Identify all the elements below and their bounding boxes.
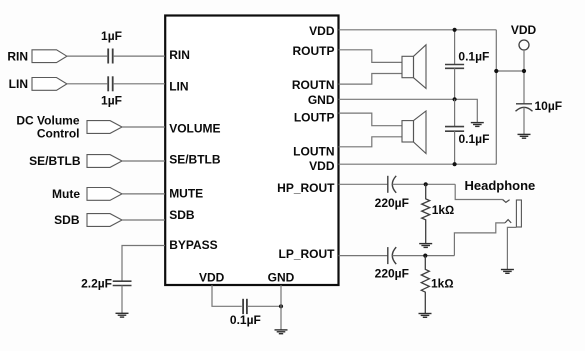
wire GND stub (280, 285, 282, 330)
svg-text:LIN: LIN (9, 77, 28, 91)
node SE/BTLB input tag (87, 155, 122, 168)
node RIN input tag (32, 50, 67, 63)
capacitor C1 1uF (108, 49, 113, 64)
wire HP to jack tip contact (455, 184, 502, 199)
capacitor C8 220uF (polarized) (388, 176, 396, 193)
svg-text:SDB: SDB (54, 213, 80, 227)
capacitor C4 0.1uF (243, 299, 247, 314)
ground (10uF) (518, 134, 531, 138)
node junction (GND stub / C4) (279, 304, 283, 308)
wire LP_ROUT to C9 (339, 255, 388, 257)
svg-text:ROUTN: ROUTN (292, 78, 335, 92)
wire RIN tag to C1 (67, 55, 107, 57)
ground (bypass cap) (116, 313, 129, 317)
wire VDD terminal down (523, 50, 525, 104)
node junction (LP node / R2) (423, 254, 427, 258)
wire LIN tag to C2 (67, 83, 107, 85)
svg-text:SE/BTLB: SE/BTLB (29, 154, 81, 168)
capacitor C6 0.1uF (GND-VDD lower) (454, 99, 456, 126)
wire C1 to RIN pin (114, 55, 165, 57)
ground (right rail) (471, 123, 484, 127)
headphone jack tip contact (503, 200, 510, 203)
svg-text:RIN: RIN (169, 48, 190, 62)
svg-text:VDD: VDD (309, 24, 335, 38)
svg-text:HP_ROUT: HP_ROUT (277, 181, 335, 195)
svg-text:1µF: 1µF (101, 29, 122, 43)
wire SDB tag to pin (122, 219, 165, 221)
wire GND rail (339, 99, 478, 122)
svg-text:10µF: 10µF (535, 99, 563, 113)
node LIN input tag (32, 78, 67, 91)
ground (R2) (419, 314, 432, 318)
wire LOUTN to speaker (339, 137, 403, 147)
capacitor C9 220uF (polarized) (388, 247, 396, 264)
capacitor C7 10uF (polarized) (516, 104, 533, 112)
svg-text:2.2µF: 2.2µF (81, 277, 112, 291)
wire BYPASS to C3 (122, 246, 165, 281)
capacitor C3 2.2uF (113, 281, 132, 285)
capacitor C2 1uF (108, 76, 113, 91)
svg-text:RIN: RIN (7, 49, 28, 63)
resistor R2 1k (421, 256, 429, 314)
wire C7 to ground (523, 107, 525, 134)
wire VDD lower rail (339, 163, 497, 165)
node DC Volume Control input tag (87, 121, 122, 134)
wire C9 to ring contact (392, 255, 454, 257)
svg-text:Mute: Mute (52, 187, 80, 201)
resistor R1 1k (422, 184, 430, 243)
node junction (HP node / R1) (424, 182, 428, 186)
wire VDD stub to C4 (212, 285, 242, 306)
svg-text:GND: GND (308, 93, 335, 107)
svg-text:LOUTP: LOUTP (294, 110, 335, 124)
wire jack sleeve to ground (507, 227, 516, 269)
wire VDD top rail (339, 29, 497, 31)
svg-text:0.1µF: 0.1µF (230, 313, 261, 327)
svg-text:SDB: SDB (169, 208, 195, 222)
ground (jack sleeve) (501, 270, 514, 274)
svg-text:BYPASS: BYPASS (169, 238, 217, 252)
capacitor C5 0.1uF (VDD-GND top) (454, 30, 456, 65)
wire C3 to ground (121, 286, 123, 314)
wire LOUTP to speaker (339, 113, 403, 126)
wire HP_ROUT to C8 (339, 183, 388, 185)
speaker SPK2 (left channel) (402, 111, 426, 154)
svg-text:220µF: 220µF (375, 266, 409, 280)
speaker SPK1 (right channel) (402, 45, 426, 89)
svg-text:1kΩ: 1kΩ (431, 277, 454, 291)
svg-text:VDD: VDD (511, 23, 537, 37)
node SDB input tag (87, 214, 122, 227)
wire C2 to LIN pin (114, 83, 165, 85)
node junction (VDD lower rail / C6) (453, 162, 457, 166)
node junction (VDD rail / C5) (453, 28, 457, 32)
svg-text:LP_ROUT: LP_ROUT (278, 247, 335, 261)
ground (GND pin) (275, 330, 288, 334)
svg-text:1µF: 1µF (101, 93, 122, 107)
svg-text:VDD: VDD (309, 159, 335, 173)
svg-text:ROUTP: ROUTP (293, 44, 335, 58)
svg-text:SE/BTLB: SE/BTLB (169, 152, 221, 166)
wire LP to jack ring contact (454, 223, 505, 256)
svg-text:0.1µF: 0.1µF (459, 132, 490, 146)
svg-text:MUTE: MUTE (169, 187, 203, 201)
headphone jack plug body (516, 200, 521, 227)
svg-text:Headphone: Headphone (465, 178, 536, 193)
svg-text:1kΩ: 1kΩ (432, 203, 455, 217)
ground (R1) (419, 244, 432, 248)
wire C4 to GND stub (248, 305, 281, 307)
wire VOLUME tag to pin (122, 126, 165, 128)
svg-text:220µF: 220µF (375, 196, 409, 210)
svg-text:LIN: LIN (169, 79, 188, 93)
svg-text:DC Volume: DC Volume (16, 113, 79, 127)
svg-text:VDD: VDD (199, 270, 225, 284)
wire SE/BTLB tag to pin (122, 160, 165, 162)
node junction (GND rail / C5) (453, 97, 457, 101)
headphone jack ring contact (505, 220, 511, 223)
node junction (right rail / VDD feed) (494, 69, 498, 73)
wire ROUTN to speaker (339, 74, 403, 85)
wire VDD node to right rail (496, 70, 524, 72)
node junction (VDD terminal / C7) (522, 69, 526, 73)
node VDD supply terminal (519, 40, 529, 50)
wire C8 to headphone tip (392, 183, 455, 185)
IC U1 body (165, 16, 338, 286)
node Mute input tag (87, 188, 122, 201)
svg-text:Control: Control (37, 127, 80, 141)
wire VDD right vertical (495, 30, 497, 164)
svg-text:GND: GND (268, 270, 295, 284)
wire ROUTP to speaker (339, 50, 403, 63)
wire Mute tag to pin (122, 193, 165, 195)
svg-text:0.1µF: 0.1µF (458, 50, 489, 64)
svg-text:LOUTN: LOUTN (293, 145, 334, 159)
svg-text:VOLUME: VOLUME (169, 121, 220, 135)
